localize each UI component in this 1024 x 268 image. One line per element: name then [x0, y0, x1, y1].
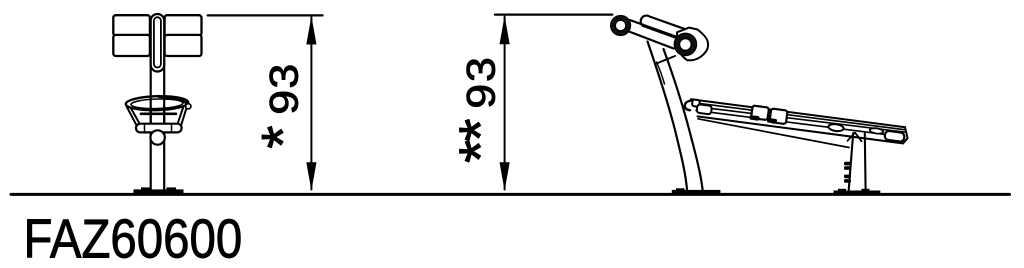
bowl bottom ring: [136, 124, 182, 133]
bench left tip hook: [685, 101, 692, 111]
dimension *93 line: [310, 17, 312, 190]
leg bolts: [844, 162, 851, 183]
bench oval slot 1: [828, 123, 844, 132]
clip 2 foot: [767, 118, 778, 124]
bench curved post: [648, 42, 703, 190]
dimension **93 top arrow: [500, 16, 510, 45]
roller cross bar: [629, 20, 677, 49]
handle capsule inner slot: [154, 17, 161, 67]
ball joint: [150, 130, 164, 144]
bench rear leg: [849, 133, 866, 190]
bowl rim: [126, 95, 189, 111]
left station base plate: [134, 187, 184, 193]
svg-text:FAZ60600: FAZ60600: [24, 209, 243, 268]
bowl body sides: [127, 105, 188, 126]
bench base plate (post): [672, 188, 721, 193]
dimension *93 top arrow: [306, 16, 316, 45]
svg-text:9: 9: [460, 84, 504, 109]
dimension *93 bottom arrow: [306, 162, 316, 191]
dimension **93 extension line: [495, 14, 612, 16]
rim bolt circle: [186, 104, 191, 109]
bench base plate (rear leg): [834, 189, 881, 194]
left station top pad left block: [113, 15, 150, 56]
svg-text:*: *: [447, 118, 514, 141]
left station top pad right block: [165, 15, 202, 56]
roller left ring inner: [615, 20, 626, 31]
svg-text:*: *: [447, 140, 514, 163]
bench middle clip 2: [769, 108, 787, 124]
roller left ring annulus: [613, 18, 628, 33]
ring tick right: [171, 125, 173, 132]
leg gusset: [848, 133, 862, 142]
handle capsule outer: [151, 14, 165, 72]
svg-text:9: 9: [263, 90, 307, 115]
clip 1 foot: [749, 115, 760, 121]
roller right ring annulus: [677, 36, 694, 53]
bench plank rails: [691, 99, 908, 147]
bowl inner shelf line: [141, 113, 176, 116]
bench left bracket A: [692, 99, 700, 106]
dimension *93 extension line: [208, 14, 323, 16]
post inner highlight line: [657, 62, 665, 84]
bench middle clip 1: [751, 105, 769, 120]
svg-text:*: *: [249, 125, 316, 148]
dimension **93 line: [504, 17, 506, 190]
roller rear tube: [641, 16, 697, 43]
bench end bracket: [884, 131, 905, 142]
roller left ring outer: [611, 16, 630, 35]
bench left bracket B: [697, 104, 712, 114]
svg-text:3: 3: [460, 57, 504, 82]
bowl rim top-right heavy edge: [159, 96, 188, 103]
bench oval slot 2: [869, 127, 883, 134]
ring tick left: [144, 125, 146, 132]
bowl post through lines: [151, 96, 165, 136]
roller right end cap: [677, 28, 708, 61]
roller right ring outer: [675, 34, 697, 56]
svg-text:3: 3: [263, 64, 307, 89]
post joint line: [657, 56, 676, 64]
left station post: [151, 60, 165, 190]
ground line: [11, 193, 1010, 196]
roller right ring inner: [679, 38, 691, 50]
dimension **93 bottom arrow: [500, 162, 510, 191]
